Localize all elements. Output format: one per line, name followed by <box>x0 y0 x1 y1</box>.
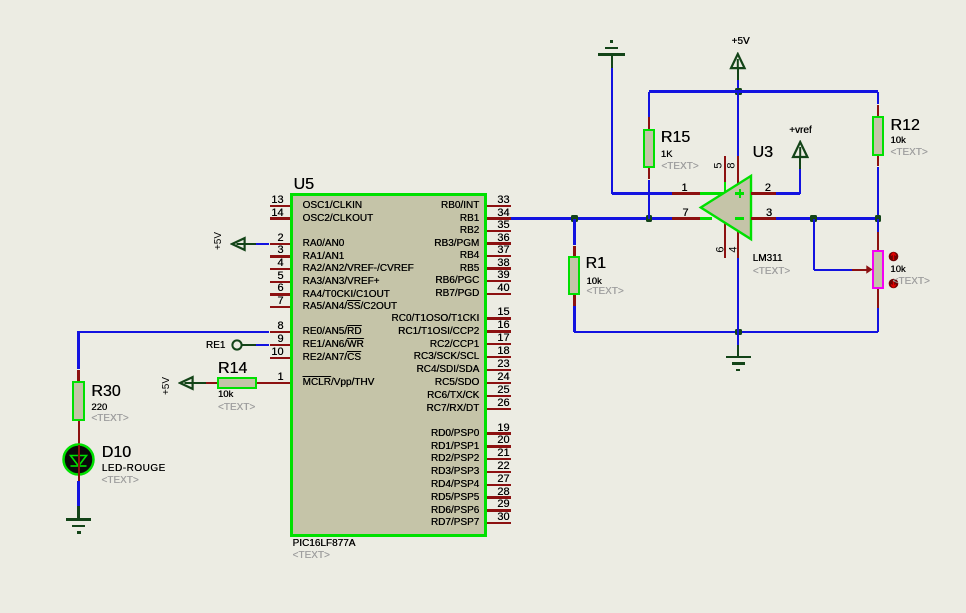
U5 pin 17 (RC2/CCP1) stub <box>487 343 511 345</box>
U5 pin name row 3 <box>303 252 345 262</box>
wire junction to ground (blue) <box>737 332 739 345</box>
junction node wiper branch <box>810 215 817 222</box>
resistor R1 bottom pin stub <box>573 295 575 306</box>
U5 pin number 18 <box>210 346 510 357</box>
label U5 <TEXT> <box>293 551 330 561</box>
U5 pin name row 13 <box>303 201 362 211</box>
U5 pin number 10 <box>0 347 284 358</box>
junction node at R15 bottom <box>646 215 653 222</box>
label R30 <TEXT> <box>91 414 128 424</box>
U5 pin name row 24 <box>179 378 479 388</box>
U5 pin name row 7 <box>303 302 397 312</box>
wire R30 to LED D10 (red pin) <box>78 421 80 446</box>
IC U5 PIC16LF877A body <box>290 193 487 537</box>
ground below D10 symbol <box>78 520 80 521</box>
U5 pin 18 (RC3/SCK/SCL) stub <box>487 356 511 358</box>
label R15 value 1K <box>661 150 673 160</box>
wire R1 bottom vertical <box>573 306 575 332</box>
op-amp U3 pin number 2 <box>765 183 771 194</box>
U5 pin number 21 <box>210 448 510 459</box>
U5 pin name row 34 <box>179 214 479 224</box>
wire +5V to rail (blue) <box>737 80 739 92</box>
U5 pin name row 38 <box>179 264 479 274</box>
U5 pin name row 18 <box>179 352 479 362</box>
resistor R1 body <box>568 256 580 295</box>
U5 pin name row 33 <box>179 201 479 211</box>
label pot value 10k <box>890 265 905 275</box>
U5 pin 4 (RA2/AN2/VREF-/CVREF) stub <box>270 268 290 270</box>
U5 pin name row 30 <box>179 518 479 528</box>
power +5V arrow near U5 pin2 <box>230 235 248 253</box>
label U3 <TEXT> <box>753 267 790 277</box>
op-amp U3 pin3 stub (red) <box>751 217 776 219</box>
op-amp U3 pin5 stub (red) <box>724 156 726 182</box>
op-amp U3 pin number 6 (rotated) <box>715 209 726 289</box>
U5 pin number 2 <box>0 233 284 244</box>
U5 pin number 29 <box>210 499 510 510</box>
label PIC16LF877A <box>293 539 356 549</box>
op-amp U3 pin number 4 (rotated) <box>729 209 740 289</box>
ground center symbol <box>737 357 739 358</box>
op-amp U3 pin number 1 <box>388 183 688 194</box>
ground top-left stub <box>611 55 613 68</box>
U5 pin name row 4 <box>303 264 414 274</box>
op-amp U3 plus input mark <box>735 192 744 195</box>
label D10 <box>102 445 131 461</box>
U5 pin name row 37 <box>179 251 479 261</box>
power +5V stem near pin2 (green) <box>244 243 256 245</box>
op-amp U3 pin1 stub (red) <box>672 192 700 194</box>
U5 pin 30 (RD7/PSP7) stub <box>487 522 511 524</box>
label R14 <TEXT> <box>218 403 255 413</box>
U5 pin number 5 <box>0 271 284 282</box>
U5 pin 22 (RD3/PSP3) stub <box>487 471 511 473</box>
U5 pin number 28 <box>210 487 510 498</box>
U5 pin 40 (RB7/PGD) stub <box>487 293 511 295</box>
U5 pin name row 25 <box>179 391 479 401</box>
power +5V top stem (green) <box>737 68 739 80</box>
U5 pin 37 (RB4) stub <box>487 255 511 257</box>
label D10 LED-ROUGE <box>102 464 166 474</box>
wire +5V rail to U3 pin8 (blue) <box>737 92 739 156</box>
terminal RE1 label <box>0 341 225 351</box>
wire RE1 to U5 pin9 (green) <box>242 344 257 346</box>
U5 pin number 16 <box>210 320 510 331</box>
U5 pin number 35 <box>210 220 510 231</box>
U5 pin number 4 <box>0 258 284 269</box>
wire junction to pot top (blue) <box>877 219 879 232</box>
power +5V arrow near R14 <box>178 374 196 392</box>
U5 pin number 23 <box>210 359 510 370</box>
U5 pin number 34 <box>210 208 510 219</box>
label D10 <TEXT> <box>101 476 138 486</box>
U5 pin name row 27 <box>179 480 479 490</box>
ground top-left symbol (inverted) <box>598 53 625 55</box>
U5 pin 29 (RD6/PSP6) stub <box>487 509 511 511</box>
op-amp U3 minus input mark <box>735 217 744 220</box>
op-amp U3 pin6 stub (red) <box>724 223 726 258</box>
U5 pin number 13 <box>0 195 284 206</box>
U5 pin 14 (OSC2/CLKOUT) stub <box>270 217 290 219</box>
label U3 LM311 <box>753 254 783 264</box>
resistor R15 bottom pin stub <box>648 168 650 180</box>
ground center stub <box>737 345 739 357</box>
op-amp U3 pin7 stub (red) <box>672 217 700 219</box>
op-amp U3 pin4 stub (red) <box>737 231 739 258</box>
U5 pin 9 (RE1/AN6/WR) stub <box>270 344 290 346</box>
junction node at R1 top <box>571 215 578 222</box>
label R30 value 220 <box>91 403 107 413</box>
potentiometer wiper arrowhead <box>866 265 874 274</box>
U5 pin 13 (OSC1/CLKIN) stub <box>270 205 290 207</box>
U5 pin number 40 <box>210 283 510 294</box>
resistor R1 top wire <box>573 219 575 246</box>
label R14 value 10k <box>218 390 233 400</box>
U5 pin name row 22 <box>179 467 479 477</box>
U5 pin 24 (RC5/SDO) stub <box>487 382 511 384</box>
wire rail to R12 (blue) <box>877 92 879 105</box>
wire +5V to U5 pin2 (blue) <box>256 243 270 245</box>
U5 pin 21 (RD2/PSP2) stub <box>487 458 511 460</box>
U5 pin number 36 <box>210 233 510 244</box>
U5 pin name row 2 <box>303 239 345 249</box>
junction node R12/pot column <box>875 215 882 222</box>
op-amp U3 pin number 8 (rotated) <box>727 125 738 205</box>
U5 pin name row 17 <box>179 340 479 350</box>
LED D10 body <box>62 443 95 476</box>
U5 pin number 6 <box>0 283 284 294</box>
resistor R1 top pin stub <box>573 246 575 257</box>
wire +vref vertical (blue) <box>799 169 801 194</box>
wire wiper branch horizontal (blue) <box>814 269 852 271</box>
U5 pin number 30 <box>210 512 510 523</box>
resistor R15 body <box>643 129 655 168</box>
power +5V top label <box>732 37 750 47</box>
U5 pin number 3 <box>0 245 284 256</box>
U5 pin number 39 <box>210 270 510 281</box>
op-amp U3 pin number 7 <box>389 208 689 219</box>
U5 pin name row 8 <box>303 327 362 337</box>
U5 pin number 17 <box>210 333 510 344</box>
U5 pin number 27 <box>210 474 510 485</box>
power +5V top arrow <box>729 52 747 70</box>
U5 pin number 1 <box>0 372 284 383</box>
op-amp U3 pin7 inner (green) <box>700 217 713 219</box>
potentiometer RV bottom pin stub <box>877 289 879 308</box>
U5 pin number 8 <box>0 321 284 332</box>
+5V rail wire horizontal <box>649 90 878 92</box>
power +5V stem to R14 (green) <box>192 382 206 384</box>
label R15 <box>661 130 690 146</box>
potentiometer down-adjust dot <box>888 278 899 289</box>
wire through LED D10 (red pin) <box>78 445 80 481</box>
U5 pin number 26 <box>210 398 510 409</box>
resistor R30 body <box>72 381 85 421</box>
U5 pin name row 36 <box>179 239 479 249</box>
resistor R14 body <box>217 377 257 389</box>
potentiometer wiper pin (red) <box>852 269 868 271</box>
resistor R14 left pin stub <box>206 382 217 384</box>
label R1 <TEXT> <box>586 287 623 297</box>
U5 pin 23 (RC4/SDI/SDA) stub <box>487 369 511 371</box>
U5 pin 25 (RC6/TX/CK) stub <box>487 395 511 397</box>
op-amp U3 pin8 stub (red) <box>737 156 739 184</box>
U5 pin name row 29 <box>179 506 479 516</box>
U5 pin name row 21 <box>179 454 479 464</box>
U5 pin number 9 <box>0 334 284 345</box>
op-amp U3 pin number 3 <box>766 208 772 219</box>
U5 pin 6 (RA4/T0CKI/C1OUT) stub <box>270 293 290 295</box>
U5 pin 27 (RD4/PSP4) stub <box>487 484 511 486</box>
label U3 <box>753 145 773 161</box>
U5 pin number 38 <box>210 258 510 269</box>
U5 pin name row 28 <box>179 493 479 503</box>
U5 pin 16 (RC1/T1OSI/CCP2) stub <box>487 330 511 332</box>
U5 pin 39 (RB6/PGC) stub <box>487 280 511 282</box>
U5 pin name row 19 <box>179 429 479 439</box>
U5 pin 15 (RC0/T1OSO/T1CKI) stub <box>487 317 511 319</box>
U5 pin number 22 <box>210 461 510 472</box>
op-amp U3 pin2 stub (red) <box>751 192 776 194</box>
U5 pin name row 6 <box>303 290 390 300</box>
U5 pin 38 (RB5) stub <box>487 267 511 269</box>
op-amp U3 pin1 inner (green) <box>700 192 724 194</box>
op-amp U3 triangle body <box>698 173 754 242</box>
label +vref <box>789 126 812 136</box>
resistor R15 top pin stub <box>648 117 650 129</box>
U5 pin name row 14 <box>303 214 374 224</box>
wire LED to ground <box>77 481 79 506</box>
U5 pin 10 (RE2/AN7/CS) stub <box>270 357 290 359</box>
U5 pin name row 5 <box>303 277 380 287</box>
U5 pin number 33 <box>210 195 510 206</box>
wire pot bottom to rail (blue) <box>877 308 879 332</box>
label R14 <box>218 361 247 377</box>
bottom rail wire <box>574 331 878 333</box>
resistor R12 body <box>872 116 884 157</box>
wire R30 column vertical <box>77 332 79 370</box>
U5 pin 28 (RD5/PSP5) stub <box>487 496 511 498</box>
wire RE1 to U5 pin9 (blue) <box>256 344 269 346</box>
junction node +5V rail <box>735 88 742 95</box>
U5 pin 8 (RE0/AN5/RD) stub <box>270 331 290 333</box>
power +5V symbol near U5 pin2 rotated label <box>214 201 224 281</box>
U5 pin 5 (RA3/AN3/VREF+) stub <box>270 281 290 283</box>
U5 pin 34 (RB1) stub <box>487 217 511 219</box>
wire wiper branch vertical (blue) <box>813 219 815 270</box>
power +vref arrow <box>791 140 809 159</box>
junction node bottom rail to ground <box>735 329 742 336</box>
label R1 <box>586 256 606 272</box>
U5 pin 33 (RB0/INT) stub <box>487 205 511 207</box>
wire U3 pin3 to pot column (blue) <box>776 217 878 219</box>
U5 pin number 37 <box>210 245 510 256</box>
label R1 value 10k <box>586 277 601 287</box>
wire R14 to U5 pin1 (red) <box>257 382 270 384</box>
potentiometer RV body <box>872 250 884 289</box>
ground below D10 stub <box>77 506 79 520</box>
U5 pin 35 (RB2) stub <box>487 230 511 232</box>
label R30 <box>91 384 120 400</box>
resistor R12 top pin stub <box>877 105 879 116</box>
U5 pin 7 (RA5/AN4/SS/C2OUT) stub <box>270 306 290 308</box>
U5 pin name row 20 <box>179 442 479 452</box>
label U5 <box>294 177 314 193</box>
wire R15 bottom vertical <box>648 180 650 219</box>
U5 pin name row 35 <box>179 226 479 236</box>
U5 pin 20 (RD1/PSP1) stub <box>487 445 511 447</box>
U5 pin 2 (RA0/AN0) stub <box>270 243 290 245</box>
op-amp U3 pin number 5 (rotated) <box>714 125 725 205</box>
wire U3 pin4 to ground junction (blue) <box>737 258 739 332</box>
U5 pin number 7 <box>0 296 284 307</box>
U5 pin number 19 <box>210 423 510 434</box>
U5 pin 26 (RC7/RX/DT) stub <box>487 408 511 410</box>
wire R12 bottom to junction (blue) <box>877 167 879 219</box>
wire top-left ground vertical <box>611 68 613 194</box>
label R15 <TEXT> <box>661 162 698 172</box>
U5 pin name row 9 <box>303 340 364 350</box>
U5 pin name row 39 <box>179 276 479 286</box>
U5 pin 36 (RB3/PGM) stub <box>487 242 511 244</box>
power +5V symbol near R14 rotated label <box>162 346 172 426</box>
U5 pin number 24 <box>210 372 510 383</box>
U5 pin name row 40 <box>179 289 479 299</box>
potentiometer up-adjust dot <box>888 251 899 262</box>
U5 pin number 15 <box>210 307 510 318</box>
U5 pin 19 (RD0/PSP0) stub <box>487 432 511 434</box>
U5 pin number 20 <box>210 435 510 446</box>
resistor R30 top pin stub <box>77 370 79 382</box>
op-amp U3 pin5 inner (green) <box>724 182 726 192</box>
potentiometer RV top pin stub <box>877 232 879 250</box>
U5 pin name row 1 <box>303 378 375 388</box>
wire U3 pin2 to +vref (blue) <box>776 192 800 194</box>
U5 pin name row 16 <box>179 327 479 337</box>
U5 pin name row 10 <box>303 353 361 363</box>
label R12 <TEXT> <box>890 148 927 158</box>
U5 pin name row 26 <box>179 404 479 414</box>
resistor R15 top wire <box>648 92 650 117</box>
label R12 value 10k <box>890 136 905 146</box>
label pot <TEXT> <box>893 277 930 287</box>
wire U5 pin34 RB1 to comparator output <box>511 217 672 219</box>
terminal RE1 circle <box>231 339 243 351</box>
U5 pin name row 23 <box>179 365 479 375</box>
label R12 <box>890 118 919 134</box>
U5 pin name row 15 <box>179 314 479 324</box>
wire to U3 pin1 horizontal <box>612 192 672 194</box>
U5 pin number 14 <box>0 208 284 219</box>
U5 pin number 25 <box>210 385 510 396</box>
U5 pin 1 (MCLR/Vpp/THV) stub <box>270 382 290 384</box>
power +vref stem (green) <box>799 157 801 169</box>
wire U5 pin8 RE0 to R30 column (horizontal) <box>77 331 269 333</box>
resistor R12 bottom pin stub <box>877 156 879 166</box>
U5 pin 3 (RA1/AN1) stub <box>270 255 290 257</box>
